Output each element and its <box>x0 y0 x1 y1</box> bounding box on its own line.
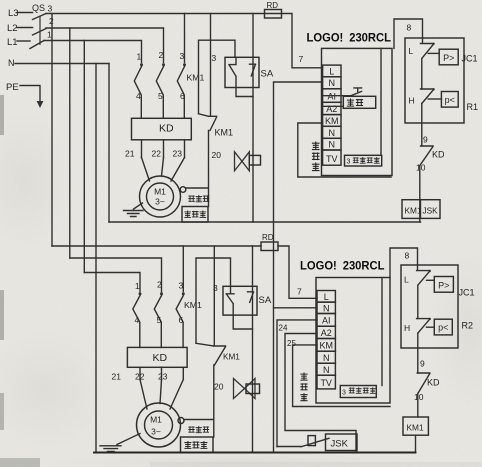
svg-text:3: 3 <box>347 158 351 165</box>
wire phase1 to KM1 contact 1 <box>44 41 142 63</box>
svg-text:23: 23 <box>158 372 168 382</box>
svg-text:21: 21 <box>125 149 135 159</box>
wire PE lead <box>20 86 40 102</box>
ground at motor M1 <box>134 203 143 211</box>
scan smudge left 3 <box>0 393 4 430</box>
svg-text:N: N <box>329 78 336 88</box>
contact KD lower <box>417 373 430 394</box>
solenoid valve upper <box>235 152 243 171</box>
svg-text:6: 6 <box>180 91 185 101</box>
wire KM1 contact 3 feed lower <box>182 246 184 292</box>
svg-text:H: H <box>404 323 410 333</box>
compressor label box upper <box>182 207 208 223</box>
pushbutton blade <box>351 91 362 95</box>
terminal A2 <box>323 102 341 114</box>
svg-text:4: 4 <box>135 315 140 325</box>
svg-text:TV: TV <box>326 154 338 164</box>
disconnect switch QS pole 1 blade <box>30 41 44 49</box>
svg-text:QS: QS <box>32 3 45 13</box>
wire phase1 lower to contact 1 <box>84 273 140 292</box>
svg-text:10: 10 <box>416 163 426 173</box>
svg-text:SA: SA <box>259 295 272 306</box>
SA right pole line through valve to N <box>252 14 254 223</box>
wire motor leads <box>142 158 185 182</box>
contactor KM1 main contact 1 <box>140 63 143 66</box>
svg-text:AI: AI <box>322 316 331 326</box>
pushbutton plunger <box>354 88 362 92</box>
scan smudge left 2 <box>0 290 4 340</box>
wire junction diag to KM1 aux <box>199 114 209 117</box>
terminal TV lower <box>317 375 335 389</box>
wire heater lower <box>184 365 214 437</box>
wire phase2 to KM1 contact 2 <box>46 28 164 63</box>
terminal AI <box>323 89 341 103</box>
svg-text:SA: SA <box>261 69 274 80</box>
svg-text:N: N <box>8 58 15 68</box>
svg-text:P>: P> <box>443 53 454 63</box>
svg-text:P>: P> <box>438 280 449 290</box>
label drain valve lower (vertical) <box>300 373 307 381</box>
svg-text:25: 25 <box>287 339 296 348</box>
solenoid valve lower <box>234 379 245 399</box>
PLC LOGO lower box <box>316 278 390 404</box>
wire to p< <box>428 98 441 100</box>
contactor KM1 lower main contact 2 <box>160 292 163 295</box>
svg-text:R1: R1 <box>467 102 479 112</box>
svg-text:L2: L2 <box>7 23 18 34</box>
fuse RD lower <box>261 242 278 251</box>
terminal N <box>323 77 341 89</box>
wire to p< lower <box>427 326 435 328</box>
svg-text:L1: L1 <box>7 37 18 48</box>
wire AI to push switch <box>323 95 351 97</box>
svg-text:3~: 3~ <box>151 427 161 437</box>
sensor p< lower <box>434 319 452 335</box>
svg-text:6: 6 <box>179 315 184 325</box>
svg-text:KD: KD <box>427 378 440 388</box>
svg-text:KD: KD <box>153 352 168 364</box>
svg-text:RD: RD <box>262 233 274 242</box>
sensor P> lower <box>434 277 453 293</box>
terminal A2 lower <box>317 326 335 338</box>
svg-text:3: 3 <box>213 283 218 293</box>
wire 3 branch from phase3 <box>210 14 212 116</box>
heater terminal on motor <box>180 187 186 193</box>
label pai-wu-fa drain valve (vertical) <box>312 142 320 150</box>
sensor p< box <box>441 92 458 108</box>
wire N return riser <box>274 82 323 452</box>
ground at motor lower <box>117 434 140 446</box>
wire phase3 lower feed <box>52 245 261 247</box>
scan smudge bottom right <box>150 462 482 467</box>
svg-text:N: N <box>329 140 336 150</box>
svg-text:AI: AI <box>328 92 337 102</box>
wire 9 lower <box>417 333 419 373</box>
svg-text:N: N <box>329 128 336 138</box>
contact KM1 auxiliary upper <box>209 116 217 130</box>
wire N drop to lower section <box>95 64 97 453</box>
svg-text:p<: p< <box>445 95 455 105</box>
SA lower left pole <box>226 286 252 329</box>
svg-text:KD: KD <box>432 150 445 160</box>
pressure controller lower box <box>401 265 458 348</box>
svg-text:KM1: KM1 <box>405 206 422 216</box>
temperature points box lower <box>340 386 376 398</box>
SA lower right pole <box>248 292 254 303</box>
svg-text:1: 1 <box>137 52 142 62</box>
scan smudge bottom band <box>0 458 40 467</box>
svg-text:TV: TV <box>320 378 332 388</box>
svg-text:8: 8 <box>407 23 412 33</box>
switch kai-guan label box <box>343 96 375 108</box>
temperature points box upper <box>345 155 382 166</box>
svg-text:M1: M1 <box>150 415 162 425</box>
svg-text:20: 20 <box>212 150 222 160</box>
wire SA right line lower through valve <box>252 246 254 452</box>
svg-text:KM: KM <box>325 116 339 126</box>
motor M1 upper <box>140 176 181 217</box>
terminal TV <box>323 150 341 165</box>
svg-text:5: 5 <box>158 91 163 101</box>
svg-text:RD: RD <box>267 1 279 10</box>
contact KM1 auxiliary lower <box>214 346 226 365</box>
svg-text:KM1: KM1 <box>184 300 202 310</box>
contactor KM1 main contact 2 <box>162 63 165 66</box>
wire 3 branch lower <box>213 246 215 346</box>
wire 25 from A2 <box>285 334 356 453</box>
svg-text:LOGO! 230RCL: LOGO! 230RCL <box>307 31 392 45</box>
terminal N2 <box>323 126 341 138</box>
terminal KM lower <box>317 339 335 352</box>
disconnect switch QS pole 2 blade <box>33 29 47 36</box>
wire 8 lower <box>390 248 418 278</box>
motor M1 lower <box>137 403 181 447</box>
wire N lower connection <box>274 307 318 309</box>
wire to P> lower <box>427 279 435 281</box>
svg-text:KM: KM <box>319 341 333 351</box>
label heater lower <box>188 426 194 432</box>
svg-text:L: L <box>329 67 334 77</box>
wire A2 to switch box <box>323 105 344 107</box>
pressure controller upper box <box>405 38 464 123</box>
svg-text:LOGO! 230RCL: LOGO! 230RCL <box>300 259 385 273</box>
svg-text:2: 2 <box>159 50 164 60</box>
svg-text:KM1: KM1 <box>223 353 240 362</box>
wire KM output loop lower <box>293 345 390 407</box>
svg-text:3: 3 <box>342 390 346 397</box>
terminal N2 lower <box>317 351 335 363</box>
wire phase2 drop to lower section <box>69 28 71 258</box>
sensor P> box <box>439 49 458 65</box>
svg-text:KM1: KM1 <box>187 73 205 83</box>
wire L2 input <box>17 27 33 29</box>
compressor label box lower <box>181 437 214 453</box>
QS mechanical link bar <box>39 16 41 46</box>
wire phase1 drop to lower section <box>83 41 85 273</box>
SA left pole <box>229 57 253 96</box>
wire L1 input <box>17 40 30 42</box>
disconnect switch QS pole 3 blade <box>33 14 47 20</box>
svg-text:10: 10 <box>414 392 424 402</box>
svg-text:2: 2 <box>157 280 162 290</box>
svg-text:5: 5 <box>157 315 162 325</box>
contactor KM1 lower main contact 3 <box>182 292 185 295</box>
svg-text:9: 9 <box>423 135 428 145</box>
wire step feed to SA left pole <box>199 40 236 114</box>
thermal relay KD upper box <box>132 118 192 140</box>
scan smudge left 1 <box>0 95 4 135</box>
svg-text:JSK: JSK <box>331 439 349 450</box>
svg-text:JC1: JC1 <box>459 288 475 298</box>
svg-text:L: L <box>409 46 414 56</box>
wire 7 lower to LOGO L <box>278 246 317 298</box>
svg-text:KD: KD <box>159 123 174 135</box>
contactor KM1 main contact 3 <box>183 63 186 66</box>
svg-text:24: 24 <box>279 324 288 333</box>
PLC LOGO upper box <box>322 48 393 175</box>
svg-text:L3: L3 <box>8 8 19 19</box>
terminal L <box>323 65 341 77</box>
svg-text:R2: R2 <box>462 321 474 331</box>
svg-text:4: 4 <box>136 91 141 101</box>
svg-text:N: N <box>323 365 330 375</box>
float switch JSK <box>277 438 329 447</box>
wire to P> <box>428 52 439 54</box>
svg-text:N: N <box>323 303 330 313</box>
label dian-jia-re heater <box>188 195 194 201</box>
wire motor leads lower <box>140 380 183 410</box>
svg-text:22: 22 <box>152 149 162 159</box>
wire diag to KM1 aux lower <box>196 343 214 346</box>
svg-text:1: 1 <box>135 281 140 291</box>
wire KD outputs <box>142 140 185 158</box>
wire phase3 drop to lower section <box>51 14 53 247</box>
wire L3 input <box>17 12 33 14</box>
wire phase2 lower to contact 2 <box>70 258 162 292</box>
wire N horizontal <box>15 63 109 65</box>
wire 9 <box>421 104 423 147</box>
selector switch SA lower box <box>223 286 257 315</box>
wire KM output loop <box>298 123 391 177</box>
svg-text:3: 3 <box>48 4 53 14</box>
wire 24 from AI to JSK <box>277 320 317 447</box>
svg-text:M1: M1 <box>154 187 166 197</box>
svg-text:L: L <box>324 292 329 302</box>
svg-text:H: H <box>409 96 415 106</box>
wire heater to KM1 aux <box>186 131 209 207</box>
svg-text:PE: PE <box>6 82 19 93</box>
coil box KM1 JSK <box>402 200 440 219</box>
svg-text:KM1: KM1 <box>215 128 234 138</box>
thermal relay KD lower box <box>127 347 187 367</box>
wire KD lower outputs <box>140 367 183 379</box>
svg-text:3: 3 <box>180 51 185 61</box>
label ya-suo-ji compressor <box>184 211 191 218</box>
svg-text:JSK: JSK <box>423 206 439 216</box>
wire coil return <box>415 435 417 452</box>
contact KD upper <box>420 146 434 166</box>
wire lower N bus <box>94 452 416 454</box>
svg-text:20: 20 <box>214 382 224 392</box>
wire 10 to coils <box>419 166 421 222</box>
terminal N3 lower <box>317 363 335 375</box>
svg-text:JC1: JC1 <box>462 54 478 64</box>
wire upper N bus <box>109 221 421 223</box>
svg-text:A2: A2 <box>326 104 337 114</box>
svg-text:21: 21 <box>112 372 122 382</box>
svg-text:3: 3 <box>179 281 184 291</box>
svg-text:7: 7 <box>297 287 302 297</box>
svg-text:p<: p< <box>438 323 448 333</box>
fuse RD upper <box>265 10 282 19</box>
svg-text:3~: 3~ <box>155 197 165 207</box>
terminal N lower <box>317 302 335 313</box>
wire N riser of upper section <box>108 64 110 223</box>
svg-text:L: L <box>404 275 409 285</box>
svg-text:KM1: KM1 <box>407 423 424 433</box>
terminal L lower <box>317 291 335 303</box>
terminal AI lower <box>317 314 335 327</box>
heater terminal lower <box>178 418 184 424</box>
selector switch SA upper box <box>225 57 259 87</box>
svg-text:N: N <box>323 353 330 363</box>
wire 8 to pressure controller <box>394 19 423 48</box>
coil KM1 lower box <box>403 417 428 435</box>
terminal KM <box>323 115 341 127</box>
wire phase3 top bus to LOGO L <box>46 14 323 68</box>
svg-text:8: 8 <box>405 251 410 261</box>
wire to KM1 coil <box>417 394 419 418</box>
svg-text:3: 3 <box>212 53 217 63</box>
svg-text:1: 1 <box>47 30 52 40</box>
terminal N3 <box>323 138 341 150</box>
svg-text:A2: A2 <box>321 328 332 338</box>
ground PE arrow head <box>37 101 44 108</box>
wire step feed to SA lower <box>196 258 231 343</box>
contactor KM1 lower main contact 1 <box>139 292 142 295</box>
wire KM1 contact 3 feed <box>184 14 186 63</box>
label compressor lower <box>184 441 191 448</box>
svg-text:9: 9 <box>420 359 425 369</box>
svg-text:7: 7 <box>299 54 304 64</box>
svg-text:23: 23 <box>173 149 183 159</box>
